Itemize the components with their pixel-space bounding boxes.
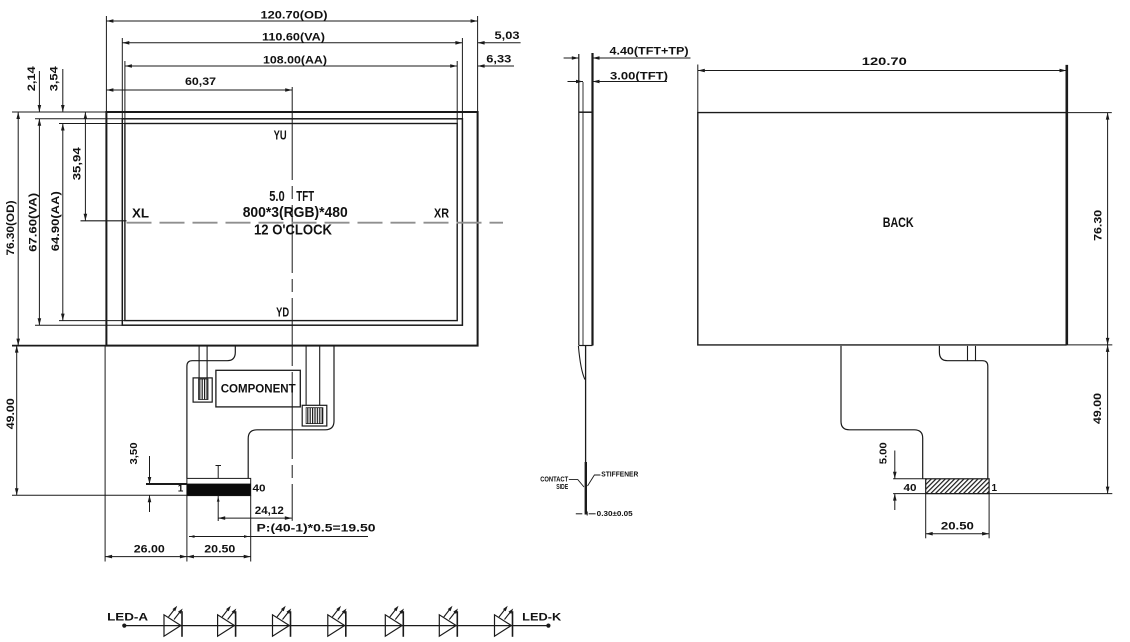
- svg-text:TFT: TFT: [296, 188, 314, 205]
- svg-text:CONTACT: CONTACT: [540, 476, 569, 483]
- dimension 20.50 front: [187, 555, 194, 559]
- dimension 60,37 center offset: [106, 89, 292, 91]
- stiffener thick segment side view: [585, 462, 587, 515]
- FPC taper curve side view: [578, 346, 585, 380]
- svg-text:800*3(RGB)*480: 800*3(RGB)*480: [243, 204, 348, 221]
- dimension 20.50 back: [925, 494, 927, 539]
- 40-pin connector bar back (hatched): [893, 478, 926, 480]
- FPC strip lines back view: [967, 346, 969, 361]
- front view AA rectangle 108.00x64.90: [125, 124, 457, 321]
- svg-text:6,33: 6,33: [486, 54, 511, 66]
- svg-text:P:(40-1)*0.5=19.50: P:(40-1)*0.5=19.50: [257, 523, 376, 535]
- dimension 24,12: [218, 517, 292, 519]
- svg-text:YD: YD: [276, 304, 289, 319]
- side view top edge: [579, 111, 593, 113]
- side view bottom edge: [579, 345, 593, 347]
- svg-text:2,14: 2,14: [26, 65, 38, 91]
- svg-text:120.70: 120.70: [862, 56, 907, 68]
- LED D3: [273, 606, 292, 637]
- svg-text:5.0: 5.0: [269, 188, 285, 205]
- vertical center line of front view: [291, 92, 293, 112]
- horizontal center line of front view (gray dashed): [81, 220, 127, 222]
- dimension 108.00(AA): [125, 65, 457, 67]
- LED D2: [218, 606, 237, 637]
- wire pair to connector CN1: [198, 346, 200, 378]
- side view touch panel front face: [578, 54, 580, 346]
- svg-text:67.60(VA): 67.60(VA): [28, 193, 40, 252]
- LED D1: [164, 606, 183, 637]
- LED D5: [385, 606, 404, 637]
- svg-text:4.40(TFT+TP): 4.40(TFT+TP): [610, 45, 689, 57]
- wire LED chain: [124, 625, 548, 627]
- LED D7: [495, 606, 514, 637]
- svg-text:SIDE: SIDE: [556, 484, 568, 491]
- FPC right outline front view: [248, 346, 334, 479]
- svg-text:40: 40: [904, 483, 918, 494]
- connector CN1 small (left, striped): [193, 378, 212, 402]
- front view VA rectangle 110.60x67.60: [122, 119, 462, 325]
- wire pair to connector CN2: [305, 346, 307, 406]
- svg-text:24,12: 24,12: [255, 505, 284, 517]
- svg-text:COMPONENT: COMPONENT: [221, 381, 297, 395]
- 40-pin FPC connector bar front: [187, 478, 251, 495]
- svg-text:64.90(AA): 64.90(AA): [50, 191, 62, 251]
- connector CN2 small (right, striped): [302, 405, 327, 426]
- svg-text:YU: YU: [274, 127, 287, 142]
- FPC right outline back view: [939, 346, 987, 479]
- dimension 120.70(OD) top: [106, 20, 477, 22]
- svg-text:3,50: 3,50: [129, 442, 140, 464]
- bottom dimension extension lines: [104, 346, 106, 562]
- svg-text:26.00: 26.00: [134, 544, 165, 556]
- side view TFT front face: [582, 82, 584, 346]
- svg-text:35,94: 35,94: [71, 146, 83, 180]
- svg-text:STIFFENER: STIFFENER: [601, 472, 638, 479]
- svg-text:3.00(TFT): 3.00(TFT): [610, 71, 668, 83]
- svg-text:3,54: 3,54: [49, 65, 61, 91]
- svg-text:76.30(OD): 76.30(OD): [5, 200, 17, 255]
- svg-text:110.60(VA): 110.60(VA): [262, 31, 325, 43]
- svg-text:20.50: 20.50: [204, 544, 235, 556]
- side view back face (thick): [591, 53, 593, 346]
- back view right edge thick: [1066, 65, 1069, 345]
- svg-text:0.30±0.05: 0.30±0.05: [597, 511, 633, 518]
- FPC left outline back view: [841, 346, 923, 479]
- dimension 5.03 right margin: [478, 42, 521, 44]
- svg-text:49.00: 49.00: [5, 398, 17, 429]
- front view outer outline OD 120.70x76.30: [106, 112, 477, 346]
- dimension 110.60(VA): [122, 42, 462, 44]
- svg-text:49.00: 49.00: [1092, 393, 1104, 424]
- svg-text:76.30: 76.30: [1092, 210, 1104, 241]
- LED D4: [328, 606, 347, 637]
- back view outline 120.70x76.30: [698, 113, 1067, 345]
- svg-text:XL: XL: [132, 205, 149, 220]
- FPC tail side view: [585, 346, 587, 515]
- svg-text:1: 1: [992, 483, 998, 494]
- dimension 0.30 +/- 0.05 FPC thickness: [576, 513, 583, 515]
- svg-text:20.50: 20.50: [941, 521, 974, 533]
- svg-text:60,37: 60,37: [185, 76, 216, 88]
- svg-text:5.00: 5.00: [878, 442, 889, 464]
- FPC left outline front view: [187, 346, 235, 479]
- LED D6: [439, 606, 458, 637]
- svg-text:40: 40: [253, 483, 267, 494]
- COMPONENT box: [216, 370, 300, 407]
- svg-text:12 O'CLOCK: 12 O'CLOCK: [254, 221, 332, 238]
- pin1 center tick marks: [216, 465, 222, 467]
- svg-text:BACK: BACK: [883, 214, 914, 230]
- svg-text:5,03: 5,03: [495, 30, 520, 42]
- svg-text:XR: XR: [434, 205, 450, 220]
- dimension 26.00: [105, 556, 251, 558]
- dimension 6.33 right margin: [478, 65, 514, 67]
- svg-text:1: 1: [178, 483, 184, 494]
- svg-text:108.00(AA): 108.00(AA): [263, 55, 327, 67]
- svg-text:120.70(OD): 120.70(OD): [261, 10, 328, 22]
- svg-text:LED-A: LED-A: [107, 612, 148, 624]
- svg-text:LED-K: LED-K: [522, 612, 561, 624]
- bold extension line at connector top: [146, 483, 187, 485]
- pitch dimension P:(40-1)*0.5=19.50: [189, 536, 368, 538]
